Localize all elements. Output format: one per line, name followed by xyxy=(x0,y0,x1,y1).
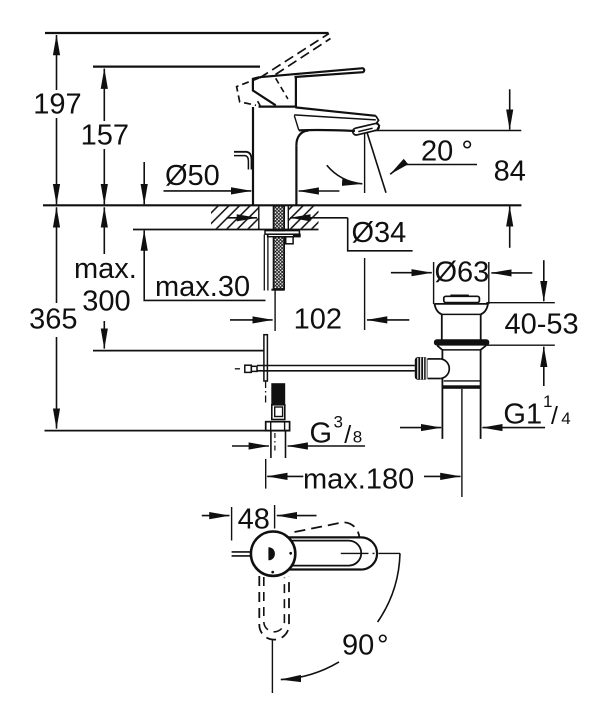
svg-text:90: 90 xyxy=(342,630,374,662)
supply hose threaded end (black) xyxy=(271,383,285,405)
svg-text:/: / xyxy=(551,402,558,430)
dim 40-53 bottom extension line xyxy=(485,344,555,346)
handle raised dashed line B xyxy=(276,39,331,75)
dim max.30 upper arrow pointing down at deck top xyxy=(143,162,145,204)
dim G3/8 left arrow xyxy=(232,445,269,447)
handle raised root dashed outline xyxy=(237,78,259,105)
shank bottom cap xyxy=(271,289,284,291)
svg-text:197: 197 xyxy=(33,89,81,121)
drain tube left segment below ball xyxy=(441,379,443,439)
drain flange left taper xyxy=(435,304,442,315)
drain plug cap top detail xyxy=(450,295,468,297)
svg-text:365: 365 xyxy=(29,304,77,336)
handle raised dashed line A xyxy=(260,34,330,79)
20 degree leader with arrow xyxy=(390,165,477,175)
svg-text:Ø34: Ø34 xyxy=(352,217,407,249)
pull rod lower plate xyxy=(264,335,268,381)
spout top outer edge xyxy=(295,107,376,115)
dim 102 right arrow xyxy=(367,319,409,321)
dim Ø50 left arrow xyxy=(164,190,252,192)
second reference line (157 upper datum) xyxy=(93,65,260,67)
svg-text:8: 8 xyxy=(353,428,362,447)
top reference line (197 upper datum) xyxy=(45,32,329,34)
drain flange top xyxy=(435,303,489,305)
svg-text:102: 102 xyxy=(294,304,342,336)
svg-text:G1: G1 xyxy=(503,399,542,431)
mounting nut dark right portion xyxy=(293,234,300,237)
faucet body top line xyxy=(259,105,297,107)
drain flange joint line xyxy=(442,313,481,315)
ball joint sphere xyxy=(441,359,449,379)
faucet body left edge xyxy=(252,107,254,205)
top view lever down position dashed outer xyxy=(259,576,289,640)
90 degree arc lower segment with arrowhead xyxy=(281,662,339,680)
dim 102 left arrow xyxy=(230,319,273,321)
dim G3/8 right arrow xyxy=(288,445,365,447)
dim 365 line upper segment with up arrow xyxy=(56,207,58,303)
faucet body right edge below spout fillet xyxy=(295,145,297,204)
spout-body fillet xyxy=(296,131,308,146)
drain flare line xyxy=(442,349,480,351)
dim 48 left arrow xyxy=(202,515,230,517)
pop-up pull rod xyxy=(274,290,276,331)
dim 84 upper arrow xyxy=(509,89,511,129)
max.30 label underline bracket xyxy=(143,299,265,301)
dim 157 line upper segment with up arrow xyxy=(103,69,105,121)
lever centerline dash-dot xyxy=(341,552,400,554)
G3/8 union nut xyxy=(266,422,290,431)
dim 48 left extension line xyxy=(231,507,233,541)
svg-text:48: 48 xyxy=(238,504,270,536)
svg-text:300: 300 xyxy=(82,286,130,318)
flexible hose line right xyxy=(267,235,269,291)
Ø34 leader arrow pointing at hole xyxy=(290,217,348,219)
top view swung lever dashed top xyxy=(295,522,360,537)
pipe centerline dashes xyxy=(274,433,276,452)
aerator outlet capsule xyxy=(353,124,379,135)
small dot right xyxy=(289,552,292,555)
deck hatch left of faucet hole xyxy=(211,206,259,229)
svg-text:max.30: max.30 xyxy=(155,271,250,303)
flexible hose line left xyxy=(263,235,265,291)
top view lever down position dashed inner xyxy=(264,577,285,632)
max.300 bottom datum line xyxy=(93,350,264,352)
drain flare below O-ring left xyxy=(437,346,442,350)
drain upper tube right xyxy=(480,314,482,339)
drain upper tube left xyxy=(441,314,443,339)
svg-text:Ø63: Ø63 xyxy=(435,257,490,289)
dim max.180 left extension line xyxy=(265,459,267,489)
dim 48 right arrow xyxy=(277,515,317,517)
handle root right edge xyxy=(295,77,297,107)
deck hole right edge xyxy=(287,205,289,229)
pop-up pull knob outer xyxy=(234,152,252,170)
svg-text:max.180: max.180 xyxy=(303,464,414,496)
dim G1 1/4 left arrow xyxy=(400,427,441,429)
hose coupling xyxy=(272,405,285,420)
dim Ø63 right extension line xyxy=(488,262,490,304)
aerator inner line xyxy=(358,128,372,131)
dim Ø63 right arrow xyxy=(491,272,532,274)
drain centerline extension xyxy=(461,389,463,497)
svg-text:4: 4 xyxy=(561,409,570,428)
drain plug cap xyxy=(444,296,480,302)
365 bottom datum line xyxy=(45,430,291,432)
mounting washer under deck xyxy=(265,231,299,235)
deck top line xyxy=(43,204,521,206)
svg-text:157: 157 xyxy=(81,120,129,152)
dim Ø63 left extension line xyxy=(433,262,435,304)
threaded shank through deck (upper) xyxy=(274,206,285,231)
top view pull knob tab lower line xyxy=(232,555,252,557)
dim max.300 line lower segment with down arrow xyxy=(103,321,105,349)
threaded shank below nut xyxy=(274,237,285,289)
top view lever outer outline xyxy=(288,537,377,569)
water stream 20 degree line xyxy=(367,132,386,193)
drain flange right taper xyxy=(481,304,488,315)
plate axis dash-dot below xyxy=(265,381,267,404)
dim 48 right extension line xyxy=(274,505,276,529)
dim 40-53 bottom arrow pointing up xyxy=(543,347,545,386)
keyhole mark xyxy=(268,547,275,560)
svg-text:G: G xyxy=(310,418,333,450)
deck hole left edge xyxy=(258,205,260,229)
connection pipe left edge xyxy=(270,431,272,458)
handle lever solid xyxy=(259,68,364,77)
svg-text:84: 84 xyxy=(494,156,526,188)
dim Ø63 left arrow xyxy=(391,272,432,274)
union nut facet left xyxy=(270,422,272,431)
dim 197 line upper segment with up arrow xyxy=(56,35,58,90)
horizontal pop-up rod to drain (top edge) xyxy=(257,365,415,367)
svg-text:°: ° xyxy=(377,630,389,662)
T-handle centerline dash left xyxy=(235,368,240,370)
svg-text:20 °: 20 ° xyxy=(421,136,473,168)
dim 40-53 top extension line xyxy=(486,302,554,304)
thread relief thin line xyxy=(444,380,481,382)
spout underside xyxy=(299,129,355,132)
dim G1 1/4 right arrow xyxy=(482,427,545,429)
small dot bottom xyxy=(271,571,274,574)
dim 157 line lower segment with down arrow xyxy=(103,149,105,204)
svg-text:3: 3 xyxy=(334,412,343,431)
drain O-ring (black band) xyxy=(434,339,489,345)
svg-text:40-53: 40-53 xyxy=(505,309,579,341)
dim max.30 lower arrow pointing up at deck bottom, tail becomes bracket xyxy=(143,231,145,300)
spout tip face xyxy=(376,116,380,130)
Ø34 label bent leader xyxy=(348,218,413,251)
hose coupling inner xyxy=(275,407,283,417)
drain tube right edge xyxy=(480,350,482,439)
dim max.180 right arrow pointing right xyxy=(424,475,461,477)
dim max.300 line upper segment with up arrow xyxy=(103,207,105,254)
dim 40-53 top arrow pointing down xyxy=(543,260,545,301)
T-handle knob piece 2 xyxy=(251,366,257,371)
union nut facet right xyxy=(284,422,286,431)
dim 84 lower arrow xyxy=(509,206,511,248)
ball joint housing top xyxy=(428,358,441,360)
dim 197 line lower segment with down arrow xyxy=(56,118,58,204)
deck bottom line xyxy=(133,229,319,231)
handle root outline xyxy=(253,77,276,105)
svg-text:max.: max. xyxy=(74,253,137,285)
knurled adjuster (black with stripes) xyxy=(415,357,428,380)
top view handle knob circle xyxy=(251,532,295,576)
spout outlet axis extension line xyxy=(364,258,366,330)
dim 365 line lower segment with down arrow xyxy=(56,337,58,429)
horizontal pop-up rod to drain (bottom edge) xyxy=(257,370,415,372)
svg-text:/: / xyxy=(344,421,351,449)
Ø34 hole left arrow xyxy=(227,217,257,219)
90 degree arc upper segment xyxy=(378,553,400,622)
dim Ø50 right arrow xyxy=(299,190,340,192)
mounting nut bar xyxy=(268,234,300,237)
90 degree extension line xyxy=(271,640,273,693)
spray angle arc with arrowhead xyxy=(327,165,363,184)
ball joint housing bottom xyxy=(428,378,441,380)
spout front crease xyxy=(294,116,299,131)
svg-text:Ø50: Ø50 xyxy=(165,160,220,192)
spout top inner edge xyxy=(294,115,376,120)
pop-up rod guide block xyxy=(286,237,293,244)
84 spout outlet reference line xyxy=(374,130,521,132)
water stream vertical reference xyxy=(364,133,366,193)
pop-up pull knob inner xyxy=(234,156,248,170)
handle root wedge line xyxy=(258,101,261,106)
dim max.180 left arrow pointing left xyxy=(267,475,303,477)
T-handle knob piece 1 xyxy=(245,365,252,372)
top view pull knob tab upper line xyxy=(232,551,252,553)
deck hatch right of faucet hole xyxy=(289,206,319,229)
handle hidden edge dashed xyxy=(276,78,288,99)
drain flare below O-ring right xyxy=(481,346,487,350)
top view lever inner outline xyxy=(291,541,362,566)
thread relief black band xyxy=(443,385,481,389)
drain tube left segment above ball xyxy=(441,350,443,359)
connection pipe right edge xyxy=(285,431,287,458)
